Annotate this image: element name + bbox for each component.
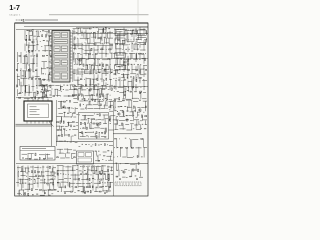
fold mark line (137, 0, 139, 23)
node junction (36, 62, 39, 65)
wire (83, 187, 85, 192)
value label (82, 84, 84, 87)
wire (136, 112, 138, 117)
wire (107, 94, 109, 100)
resistor R165 (89, 190, 92, 193)
value label (69, 186, 71, 189)
wire (98, 100, 103, 102)
wire (81, 43, 83, 54)
wire (46, 154, 50, 156)
wire (91, 58, 94, 60)
wire (105, 38, 107, 44)
wire (94, 42, 100, 44)
wire (24, 55, 26, 70)
reference label (105, 31, 106, 34)
capacitor C112 (101, 48, 103, 51)
wire (28, 183, 33, 185)
inductor L121 (57, 129, 59, 130)
wire (85, 43, 87, 56)
reference label (94, 36, 96, 39)
wire (135, 74, 137, 80)
B+ bus wire (72, 86, 148, 88)
wire (101, 119, 104, 121)
tuner label row (30, 111, 37, 114)
wire (46, 86, 48, 92)
reference label (144, 73, 146, 76)
value label (63, 165, 64, 168)
wire (73, 28, 78, 30)
wire (107, 166, 110, 168)
wire (102, 190, 106, 192)
wire (86, 33, 88, 39)
wire (82, 182, 85, 184)
resistor R127 (116, 43, 118, 46)
reference label (25, 182, 27, 185)
value label (113, 57, 115, 60)
wire (103, 115, 105, 119)
U101 internal block 3 (54, 40, 68, 44)
diode D123 (141, 115, 142, 117)
reference label (107, 181, 108, 184)
reference label (132, 42, 133, 45)
node junction (47, 90, 50, 93)
capacitor C126 (83, 98, 86, 101)
wire (122, 98, 125, 100)
value label (131, 50, 133, 53)
inductor L113 (138, 52, 140, 55)
reference label (63, 88, 64, 91)
capacitor C143 (43, 175, 45, 178)
wire (62, 166, 64, 188)
module boundary wire (56, 100, 58, 146)
wire (145, 120, 147, 124)
wire (103, 123, 107, 125)
wire (105, 82, 107, 88)
wire (77, 29, 79, 35)
wire (125, 64, 127, 70)
wire (29, 36, 31, 41)
wire (143, 139, 145, 148)
wire (77, 77, 79, 87)
value label (118, 65, 120, 68)
wire (131, 64, 133, 73)
tuner inner box (28, 104, 49, 118)
node junction (119, 162, 122, 165)
wire (65, 166, 71, 168)
wire (142, 116, 144, 121)
wire (87, 166, 89, 189)
node junction (46, 95, 49, 98)
wire (74, 174, 76, 181)
wire (76, 89, 78, 91)
wire (22, 167, 24, 171)
wire (97, 89, 99, 95)
wire (80, 86, 82, 90)
wire (85, 95, 91, 97)
wire (74, 107, 76, 113)
wire (23, 70, 25, 77)
wire (89, 33, 91, 43)
resistor R104 (37, 55, 38, 57)
sheet label dash (16, 19, 20, 21)
lower bus wire (16, 163, 148, 165)
wire (93, 104, 98, 106)
reference label (87, 122, 88, 125)
wire (68, 122, 70, 126)
wire (103, 79, 105, 85)
value label (94, 113, 95, 116)
capacitor C125 (103, 94, 104, 96)
wire (59, 140, 63, 142)
wire (122, 40, 124, 45)
reference label (127, 89, 129, 92)
reference label (47, 66, 49, 69)
resistor R131 (135, 79, 138, 81)
wire (42, 79, 46, 81)
reference label (93, 131, 94, 134)
capacitor C134 (57, 122, 59, 123)
reference label (102, 164, 104, 167)
node junction (82, 48, 85, 51)
wire (59, 126, 61, 131)
wire (73, 149, 76, 151)
wire (93, 68, 95, 73)
inductor L132 (39, 176, 41, 177)
reference label (79, 63, 81, 66)
wire (61, 187, 63, 191)
node junction (83, 78, 86, 81)
inductor L117 (140, 76, 142, 79)
value label (115, 79, 117, 82)
wire (97, 74, 99, 81)
wire (116, 54, 118, 60)
wire (20, 82, 22, 94)
node junction (123, 77, 126, 80)
wire (20, 52, 22, 63)
wire (101, 34, 103, 41)
wire (86, 38, 89, 40)
wire (73, 69, 78, 71)
value label (54, 172, 56, 175)
node junction (135, 90, 138, 93)
wire (36, 90, 38, 96)
wire (88, 43, 90, 50)
wire (102, 166, 104, 192)
wire (18, 190, 20, 196)
value label (110, 63, 111, 66)
value label (33, 71, 35, 74)
value label (104, 105, 106, 108)
wire (58, 100, 61, 102)
reference label (125, 90, 126, 93)
IC left rail wire (48, 30, 50, 82)
wire (55, 88, 59, 90)
wire (94, 58, 96, 65)
wire (145, 40, 147, 45)
node junction (87, 136, 90, 139)
reference label (99, 71, 101, 74)
wire (74, 44, 76, 50)
wire (109, 43, 111, 54)
inductor L104 (34, 97, 37, 100)
wire (57, 165, 63, 167)
wire (83, 95, 85, 100)
tuner pin leads (27, 121, 51, 124)
wire (138, 70, 140, 74)
wire (21, 179, 23, 183)
wire (80, 108, 84, 110)
node junction (129, 29, 132, 32)
wire (77, 38, 79, 48)
wire (137, 74, 139, 79)
diode D103 (43, 91, 45, 94)
node junction (82, 122, 85, 125)
inductor L135 (57, 173, 60, 175)
wire (108, 66, 110, 70)
node junction (17, 170, 20, 173)
node junction (113, 146, 116, 149)
wire (110, 79, 112, 85)
wire (27, 168, 29, 173)
wire (27, 154, 29, 160)
wire (55, 85, 59, 87)
resistor R153 (29, 178, 30, 180)
diode D122 (101, 131, 103, 134)
wire (43, 84, 47, 86)
resistor R146 (123, 99, 125, 102)
wire (132, 88, 134, 92)
wire (106, 128, 108, 133)
wire (70, 136, 72, 143)
wire (103, 28, 105, 33)
ground (24, 192, 26, 194)
wire (28, 153, 34, 155)
wire (128, 115, 132, 117)
wire (109, 74, 111, 80)
reference label (93, 26, 94, 29)
wire (77, 52, 80, 54)
capacitor C117 (103, 64, 104, 67)
wire (101, 74, 103, 83)
wire (44, 46, 46, 52)
capacitor C110 (98, 37, 100, 40)
reference label (130, 76, 132, 79)
wire (32, 58, 34, 72)
wire (131, 111, 133, 117)
wire (97, 33, 99, 40)
value label (18, 78, 20, 81)
reference label (137, 63, 138, 66)
wire (105, 118, 108, 120)
resistor R109 (38, 96, 40, 99)
reference label (140, 63, 141, 66)
wire (116, 33, 118, 40)
wire (91, 95, 93, 100)
reference label (139, 99, 141, 102)
wire (60, 126, 62, 130)
resistor R122 (80, 79, 82, 80)
reference label (122, 28, 123, 31)
wire (41, 171, 44, 173)
value label (36, 38, 37, 41)
value label (106, 99, 107, 102)
resistor R116 (89, 28, 91, 29)
ground (124, 94, 126, 96)
wire (126, 110, 129, 112)
wire (101, 136, 104, 138)
node junction (92, 143, 95, 146)
resistor R106 (27, 69, 30, 71)
node junction (101, 98, 104, 101)
diode D113 (144, 58, 147, 61)
value label (113, 77, 114, 80)
wire (36, 68, 38, 78)
resistor R170 (138, 163, 139, 165)
SAW filter box (115, 30, 125, 36)
X301 cell 2 (86, 153, 92, 157)
resistor R103 (31, 50, 34, 52)
diode D108 (106, 64, 108, 67)
node junction (135, 77, 138, 80)
inductor L105 (50, 55, 52, 56)
wire (42, 85, 44, 90)
node junction (60, 190, 63, 193)
wire (123, 59, 125, 66)
capacitor C147 (54, 188, 56, 191)
wire (83, 33, 85, 38)
wire (123, 50, 125, 60)
wire (32, 76, 34, 92)
wire (64, 129, 66, 136)
wire (132, 68, 136, 70)
reference label (46, 54, 48, 57)
capacitor C140 (145, 116, 147, 117)
resistor R135 (72, 121, 74, 124)
wire (127, 32, 129, 42)
top bus wire 2 (76, 27, 148, 29)
wire (44, 190, 46, 194)
wire (102, 28, 104, 33)
wire (66, 152, 70, 154)
wire (126, 119, 129, 121)
wire (136, 54, 138, 60)
inductor L118 (140, 91, 142, 92)
wire (108, 32, 114, 34)
wire (130, 120, 133, 122)
wire (132, 139, 138, 141)
wire (44, 30, 48, 32)
reference label (144, 127, 146, 130)
wire (133, 100, 138, 102)
wire (27, 166, 29, 193)
wire (145, 124, 147, 126)
wire (111, 151, 113, 156)
value label (79, 145, 81, 148)
resistor R151 (35, 171, 36, 173)
value label (76, 168, 78, 171)
wire (41, 67, 43, 74)
wire (134, 48, 140, 50)
wire (90, 69, 92, 74)
transistor Q101 (123, 171, 125, 173)
resistor R119 (91, 48, 92, 50)
wire (25, 179, 29, 181)
wire (20, 171, 26, 173)
wire (115, 58, 117, 65)
wire (125, 87, 127, 91)
value label (51, 193, 53, 196)
wire (42, 95, 47, 97)
wire (24, 168, 26, 173)
capacitor C124 (96, 94, 99, 96)
wire (70, 182, 75, 184)
wire (49, 183, 51, 190)
inductor L119 (69, 100, 70, 102)
reference label (22, 157, 24, 160)
wire (84, 69, 86, 73)
capacitor C123 (81, 94, 82, 96)
wire (50, 171, 54, 173)
reference label (131, 63, 133, 66)
wire (57, 116, 63, 118)
wire (108, 39, 110, 45)
reference label (42, 29, 44, 32)
wire (81, 31, 83, 37)
wire (94, 133, 96, 138)
node junction (102, 48, 105, 51)
transistor Q108 (32, 41, 34, 43)
wire (21, 77, 27, 79)
wire (123, 87, 125, 91)
wire (103, 114, 108, 116)
wire (110, 105, 112, 109)
wire (116, 163, 118, 170)
wire (64, 190, 70, 192)
inductor L142 (57, 157, 59, 158)
value label (61, 90, 62, 93)
wire (37, 178, 40, 180)
wire (35, 189, 38, 191)
value label (92, 54, 93, 57)
wire (132, 92, 134, 99)
wire (20, 68, 22, 79)
node junction (106, 143, 109, 146)
capacitor C150 (80, 173, 82, 176)
wire (18, 79, 20, 86)
resistor R171 (138, 169, 139, 172)
wire (47, 79, 52, 81)
wire (115, 32, 117, 40)
wire (45, 170, 49, 172)
reference label (113, 106, 114, 109)
wire (135, 163, 137, 171)
node junction (88, 173, 91, 176)
wire (81, 58, 83, 65)
tuner AGC wire (16, 123, 53, 125)
value label (79, 32, 80, 35)
wire (99, 28, 105, 30)
wire (134, 119, 139, 121)
reference label (42, 83, 44, 86)
reference label (137, 43, 139, 46)
reference label (46, 40, 48, 43)
wire (40, 85, 45, 87)
value label (26, 172, 28, 175)
resistor R152 (36, 175, 37, 177)
capacitor C102 (39, 78, 41, 79)
wire (93, 32, 95, 42)
reference label (95, 72, 97, 75)
